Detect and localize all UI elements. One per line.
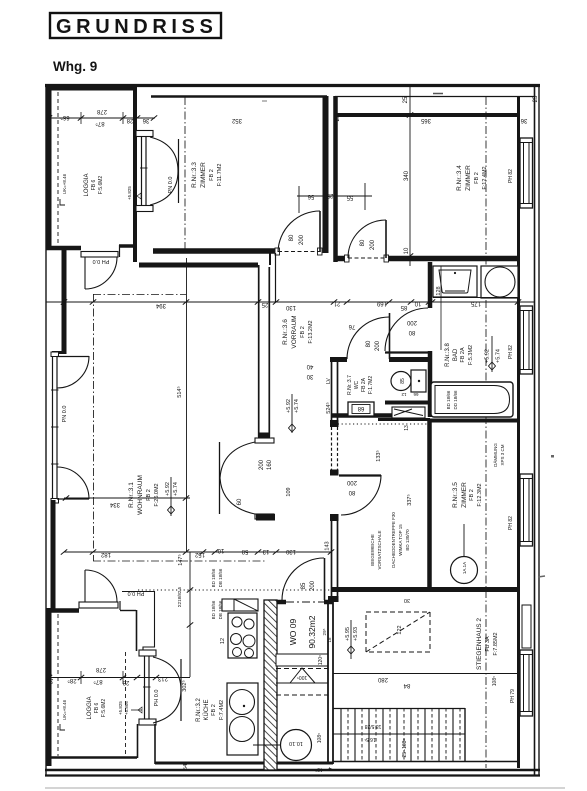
svg-text:133⁵: 133⁵ [375,450,382,461]
svg-text:+5.92: +5.92 [165,482,171,496]
svg-text:80: 80 [360,239,366,246]
svg-text:F:26.0M2: F:26.0M2 [154,483,160,506]
svg-text:F:7.85M2: F:7.85M2 [493,632,499,655]
right wall inner face [517,96,520,768]
svg-text:PH 0.0: PH 0.0 [128,590,145,596]
wohnraum labels [128,475,160,515]
svg-text:130: 130 [285,548,296,554]
step wall piece right of loggia door [119,244,137,248]
zimmer 3.4 bottom wall segments [335,256,348,262]
door jambs 3.4 [345,255,350,262]
zimmer 3.4 top wall [335,113,518,117]
svg-text:R.Nr.:3.1: R.Nr.:3.1 [128,482,135,508]
artifacts [433,93,443,95]
svg-text:182: 182 [100,551,111,557]
svg-text:F:7.4M2: F:7.4M2 [219,700,225,720]
chimney hatched [264,600,277,770]
zimmer 3.3 door leaf and arc [319,211,321,252]
svg-text:STIEGENHAUS 2: STIEGENHAUS 2 [476,618,483,670]
svg-text:R.Nr.:3.2: R.Nr.:3.2 [196,698,202,722]
loggia left wall [47,84,52,249]
svg-text:36: 36 [520,117,527,123]
svg-text:66⁵: 66⁵ [60,114,70,121]
svg-text:DACHBODENTREPPE F30: DACHBODENTREPPE F30 [391,512,396,568]
top border wall [45,84,540,87]
dash-dot y=294 [93,294,186,296]
loggia2 left wall [47,608,52,766]
triangle mark [290,668,315,683]
svg-text:68: 68 [357,405,364,411]
faint sheet bottom line [45,787,565,789]
svg-text:UK=+8.46: UK=+8.46 [62,699,67,720]
svg-text:10: 10 [414,300,421,306]
duct with diagonals [392,407,425,418]
wc cistern 68 [348,402,374,416]
svg-text:85: 85 [400,378,406,384]
svg-text:PH 82: PH 82 [508,345,514,359]
label R.Nr.:3.3 ZIMMER [191,162,223,188]
mini chain 56 25 55 [297,183,372,213]
kitchen north wall with door to vorraum [277,600,286,605]
svg-text:25: 25 [403,96,409,103]
bad west wall segments [428,262,433,308]
dash-dot y=561 [93,560,265,562]
shelf lines [276,654,328,695]
zimmer 3.5 west wall [427,420,432,588]
loggia2 dashed edge [57,614,59,756]
svg-text:200: 200 [299,234,305,245]
svg-text:KÜCHE: KÜCHE [203,699,210,720]
svg-text:FB 2: FB 2 [146,489,152,501]
svg-text:80: 80 [348,489,355,495]
door jambs double door [255,438,274,443]
double door arcs wohnraum-vorraum [220,442,255,478]
svg-text:1A.1A: 1A.1A [462,562,467,574]
kitchen-vorraum door leaf+arc [324,558,326,600]
dotted open boundary wohnraum/kitchen [138,589,332,591]
loggia2 top wall [46,608,79,613]
svg-text:PH 82: PH 82 [508,516,514,530]
loggia door arc [85,257,117,289]
svg-text:54: 54 [183,764,189,770]
window W1 [520,138,533,208]
svg-text:GRUNDRISS: GRUNDRISS [56,16,217,38]
svg-text:R.Nr.:3.5: R.Nr.:3.5 [452,482,459,508]
label R.Nr.:3.4 ZIMMER [456,165,488,191]
zimmer 3.4 left wall [333,96,338,262]
svg-text:60: 60 [237,498,243,505]
window W2 [520,306,533,374]
svg-text:36: 36 [46,677,53,683]
circle 10.10 [253,730,312,761]
stairs dashed intermediate lines [348,708,460,761]
svg-text:120⁵: 120⁵ [318,655,324,665]
svg-text:85: 85 [400,304,407,310]
svg-text:28⁵: 28⁵ [67,677,77,684]
svg-text:+5.825: +5.825 [118,701,123,715]
sink unit [227,683,258,755]
svg-text:LV: LV [326,377,332,383]
svg-text:BD 130/70: BD 130/70 [405,529,410,551]
step shaft outline [120,592,155,758]
svg-text:F:5.6M2: F:5.6M2 [98,176,104,195]
svg-text:FB 2: FB 2 [474,172,480,184]
svg-text:80: 80 [289,234,295,241]
svg-text:FB 3A: FB 3A [485,636,491,652]
svg-text:+5.92: +5.92 [286,399,292,413]
svg-text:R.Nr.:3.4: R.Nr.:3.4 [456,165,463,191]
svg-text:10: 10 [217,547,224,553]
kitchen bottom wall [155,762,333,765]
svg-text:334: 334 [109,501,120,507]
svg-text:PH 0.0: PH 0.0 [93,258,110,264]
svg-text:13: 13 [262,548,269,554]
circle 1A.1A [451,524,478,584]
zimmer 3.3 top wall [151,95,327,98]
svg-text:278: 278 [95,666,106,672]
svg-text:BIEGEWEICHE: BIEGEWEICHE [370,534,375,566]
svg-text:30: 30 [404,597,410,603]
svg-text:200: 200 [406,319,417,325]
svg-text:18.5/28: 18.5/28 [364,723,381,729]
svg-text:87⁵: 87⁵ [95,120,105,127]
svg-text:169: 169 [376,300,387,306]
west wall upper segment [62,250,67,354]
window W4 PH 79 door [520,605,533,716]
svg-text:36: 36 [142,117,149,123]
svg-text:ZIMMER: ZIMMER [200,162,207,188]
svg-text:76: 76 [348,323,355,329]
svg-text:FB 2: FB 2 [211,704,217,716]
west wall lower segment [51,500,56,612]
svg-text:F:1.7M2: F:1.7M2 [368,376,374,395]
svg-text:+5.74: +5.74 [173,482,179,496]
top dimension chain [46,95,539,127]
svg-text:66: 66 [413,392,419,397]
svg-text:FB 2: FB 2 [209,169,215,181]
wc door leaf+arc [389,313,391,359]
window door arcs [57,356,89,358]
level mark stiegenhaus [345,620,359,659]
svg-text:200: 200 [370,239,376,250]
svg-text:FB 2A: FB 2A [361,377,367,392]
bottom border double line [45,769,540,771]
loggia dashed edge [57,92,59,244]
loggia2 door sill [79,602,118,608]
svg-text:514⁵: 514⁵ [176,386,183,397]
washbasin [433,266,477,297]
svg-text:10.10: 10.10 [289,740,303,746]
svg-text:BD 18/56: BD 18/56 [211,600,216,619]
zimmer 3.3 bottom wall [153,248,277,254]
svg-text:F:13.2M2: F:13.2M2 [308,320,314,343]
svg-text:VORSATZSCHALE: VORSATZSCHALE [377,531,382,570]
stiegenhaus mid line [333,673,521,675]
loggia door sill PH 0.0 [81,252,118,258]
wc bottom wall [331,413,392,418]
svg-text:30: 30 [306,373,313,379]
svg-text:PN 0.0: PN 0.0 [168,177,174,194]
svg-text:LOGGIA: LOGGIA [87,696,93,719]
loggia bottom wall [46,246,81,251]
svg-text:147⁵: 147⁵ [177,554,184,565]
svg-text:PN 0.0: PN 0.0 [62,406,68,423]
svg-text:BD 18/66: BD 18/66 [446,390,451,409]
attic hatch dashed rect [366,612,430,652]
dimension line 340 [403,87,413,266]
svg-text:84: 84 [403,682,410,688]
svg-text:+5.805: +5.805 [124,701,129,715]
svg-text:F:12.4M2: F:12.4M2 [482,166,488,189]
dim line 334 [63,495,190,507]
door frame west PN 0.0 [136,131,153,212]
stairs treads [333,708,465,761]
zimmer 3.5 bottom wall [331,587,520,592]
closet door leaf + arc [339,474,381,476]
wc labels [347,375,374,395]
svg-text:128: 128 [436,286,442,295]
svg-text:+5.93: +5.93 [353,627,359,641]
svg-text:28: 28 [126,117,133,123]
loggia top wall [46,87,137,91]
vertical dim line with stair label [177,552,223,677]
bathtub [431,382,513,417]
svg-text:130: 130 [285,304,296,310]
svg-text:200: 200 [375,340,381,351]
svg-text:ZIMMER: ZIMMER [461,482,468,508]
svg-text:58: 58 [241,548,248,554]
level mark +5.92 +5.74 vorraum [286,394,300,433]
svg-text:ZIMMER: ZIMMER [465,165,472,191]
section dash-dot line x=486 [485,97,487,768]
svg-text:40: 40 [306,363,313,369]
stair bottom line [333,761,518,763]
svg-text:12: 12 [401,392,407,397]
label R.Nr.:3.6 VORRAUM [282,315,314,348]
svg-text:PH 79: PH 79 [510,689,516,703]
svg-text:108⁵: 108⁵ [492,676,498,686]
wall stub below door [256,514,275,521]
svg-text:LOGGIA: LOGGIA [84,173,90,196]
svg-text:10: 10 [404,247,410,254]
svg-text:WO 09: WO 09 [288,619,298,646]
label LOGGIA FB 6 F:5.6M2 [84,173,104,196]
level mark wohnraum [165,477,179,516]
svg-text:+5.92: +5.92 [485,349,491,363]
svg-text:FB 6: FB 6 [91,180,97,191]
svg-text:FB 2A: FB 2A [460,347,466,363]
svg-text:PH 0.0: PH 0.0 [154,690,160,707]
svg-text:109: 109 [286,487,292,496]
door frame band [139,650,156,725]
wohnraum top wall [139,263,258,268]
svg-text:F:12.3M2: F:12.3M2 [477,483,483,506]
svg-text:VORRAUM: VORRAUM [291,315,298,348]
svg-text:365: 365 [420,117,431,123]
wc top wall [330,357,347,362]
svg-text:394: 394 [155,302,166,308]
kitchen door double arcs [153,657,181,690]
svg-text:337⁵: 337⁵ [406,494,413,505]
svg-text:Whg. 9: Whg. 9 [53,59,97,74]
svg-text:100⁵: 100⁵ [297,674,307,680]
loggia2 labels [87,696,107,719]
closet top wall [378,418,430,421]
svg-text:200: 200 [310,580,316,591]
zimmer 3.5 labels [452,482,483,508]
title box GRUNDRISS [50,13,221,38]
svg-text:40⁵: 40⁵ [315,766,323,773]
svg-text:FB 2: FB 2 [300,326,306,338]
level mark bad [485,336,502,372]
bad labels [445,343,474,367]
svg-text:DB 18/56: DB 18/56 [218,600,223,619]
svg-text:R.Nr.:3.6: R.Nr.:3.6 [282,319,289,345]
svg-text:28: 28 [122,679,129,685]
svg-text:213: 213 [157,675,168,681]
kitchen labels [196,698,225,722]
svg-text:+5.835: +5.835 [132,186,137,200]
labels WO 09 / 90.32m2 [288,615,332,648]
svg-text:302⁵: 302⁵ [181,680,188,691]
svg-text:WC: WC [354,380,360,389]
stair mid line [333,733,465,735]
loggia2 right wall lower [137,724,139,758]
svg-text:WOHNRAUM: WOHNRAUM [137,475,144,515]
svg-text:21: 21 [333,300,340,306]
window W3 [520,474,533,546]
svg-text:152: 152 [194,551,205,557]
svg-text:160: 160 [267,459,273,470]
wall below kitchen door [154,724,156,764]
svg-text:143: 143 [325,541,331,550]
svg-text:+5.74: +5.74 [496,349,502,363]
dim line 514.5 [176,258,187,552]
zimmer 3.4 door [385,220,387,258]
svg-text:FB 2: FB 2 [469,489,475,501]
svg-text:PH 82: PH 82 [508,169,514,183]
svg-text:200: 200 [259,459,265,470]
svg-text:25 -108⁵: 25 -108⁵ [402,738,408,757]
svg-text:R.Nr.:3.8: R.Nr.:3.8 [445,343,451,367]
svg-text:DÄMMUNG: DÄMMUNG [492,443,498,467]
svg-text:56: 56 [307,193,314,199]
stove [228,613,257,658]
svg-text:4: 4 [328,765,331,771]
round basin [481,266,518,298]
svg-text:DB 18/56: DB 18/56 [218,568,223,587]
stiegenhaus west wall [327,602,329,764]
svg-text:BAD: BAD [453,348,459,361]
zimmer 3.3 right wall [323,96,329,253]
svg-text:340: 340 [404,170,410,181]
bad bottom wall [428,419,520,423]
left border line [45,84,47,776]
svg-text:108⁵: 108⁵ [317,733,323,743]
svg-text:122: 122 [397,625,403,634]
thin roof line [335,96,534,98]
section dash-dot x=93.5 [93,294,95,561]
french window west PN 0.0 [51,352,59,503]
svg-text:DD 18/66: DD 18/66 [453,390,458,410]
loggia2 door arc (into wohnraum) [85,570,117,602]
svg-text:UK=+8.46: UK=+8.46 [62,173,67,194]
svg-text:80: 80 [366,340,372,347]
loggia2 bottom wall [46,756,137,758]
svg-text:90.32m2: 90.32m2 [307,615,317,648]
svg-text:R.Nr.:3.7: R.Nr.:3.7 [347,375,353,395]
toilet [391,370,426,392]
svg-text:280: 280 [377,676,388,682]
right border double line [534,84,536,776]
svg-text:200: 200 [346,479,357,485]
svg-text:175: 175 [470,300,481,306]
section dash-dot line x=185 [184,97,186,253]
svg-text:16 5¹: 16 5¹ [364,736,376,742]
vorraum west wall (outline) [258,265,260,437]
svg-text:13: 13 [404,425,410,431]
stiegenhaus labels [476,618,499,670]
double door arcs into room [150,137,178,171]
svg-text:12: 12 [220,638,226,644]
svg-text:352: 352 [231,117,242,123]
svg-text:+5.74: +5.74 [294,399,300,413]
counter line [433,297,518,299]
svg-text:BD 18/56: BD 18/56 [211,568,216,587]
svg-text:FB 6: FB 6 [94,703,100,714]
svg-text:Σ218/82,5: Σ218/82,5 [177,586,182,607]
label 128 + dim line [440,266,442,350]
svg-text:F:11.7M2: F:11.7M2 [217,164,223,187]
svg-text:25: 25 [326,192,333,198]
svg-text:F:5.6M2: F:5.6M2 [101,699,107,718]
vent box with diagonal [222,599,258,611]
svg-text:278: 278 [96,108,107,114]
svg-text:29⁵: 29⁵ [322,628,327,635]
svg-text:R.Nr.:3.3: R.Nr.:3.3 [191,162,198,188]
svg-text:80: 80 [408,329,415,335]
svg-text:85: 85 [301,582,307,589]
svg-text:+5.95: +5.95 [345,627,351,641]
svg-text:WIMKA TOP 15: WIMKA TOP 15 [398,524,403,556]
svg-text:25: 25 [261,301,268,307]
svg-text:87⁵: 87⁵ [93,678,103,685]
bad door leaf+arc [385,351,428,353]
loggia right wall [133,84,137,262]
junction vertical 3.3 wall to vorraum [275,253,277,302]
svg-text:XPS 3 CM: XPS 3 CM [500,444,505,465]
door jambs 3.3 [275,248,280,255]
svg-text:55: 55 [346,194,353,200]
svg-text:F:5.3M2: F:5.3M2 [468,345,474,365]
